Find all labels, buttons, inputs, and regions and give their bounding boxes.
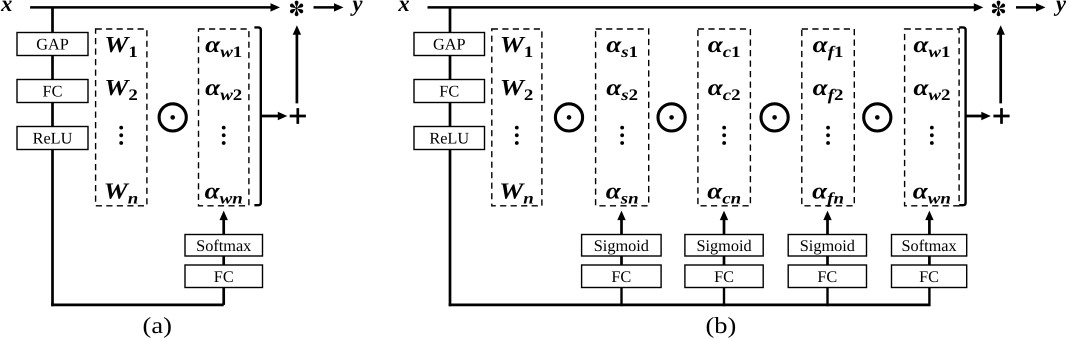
box Softmax (a) (185, 235, 263, 257)
arrow output arrow * to y (a) (314, 3, 344, 11)
box FC (a) (17, 80, 88, 103)
label alpha_c dots (b) (vertical dots) (722, 126, 726, 145)
svg-text:GAP: GAP (36, 35, 69, 54)
svg-text:FC: FC (43, 82, 63, 101)
svg-text:FC: FC (919, 267, 939, 286)
wire FC to ReLU connector (b) (449, 102, 452, 127)
svg-text:x: x (397, 0, 409, 16)
wire GAP to FC connector (b) (449, 55, 452, 80)
svg-text:Sigmoid: Sigmoid (696, 236, 751, 255)
operator odot (a) (elementwise product) (159, 104, 186, 131)
operator plus (b) (plus) (993, 108, 1009, 124)
wire ReLU down leg (b) (449, 149, 452, 306)
box FC (b) (414, 80, 485, 103)
svg-text:Sigmoid: Sigmoid (800, 236, 855, 255)
arrow sigmoid to alpha_f (b) (823, 211, 831, 235)
wire bottom feed line (b) (449, 304, 930, 307)
box FC alpha_c (b) (685, 265, 763, 288)
bracket sum bracket (b) (959, 27, 965, 205)
dashed vector box attention alpha_w (a) (199, 29, 249, 206)
svg-text:Softmax: Softmax (196, 236, 251, 255)
dashed vector box weights W (b) (492, 29, 542, 206)
wire FC down stub alpha_f (b) (826, 287, 828, 306)
box ReLU (a) (17, 127, 88, 150)
wire ReLU down leg (a) (51, 149, 54, 306)
svg-text:(a): (a) (143, 313, 172, 338)
operator odot 1 (b) (elementwise product) (555, 104, 582, 131)
arrow sigmoid to alpha_s (b) (617, 211, 625, 235)
bracket sum bracket (a) (254, 27, 260, 205)
box FC alpha_f (b) (788, 265, 866, 288)
wire branch drop from main path (a) (51, 7, 54, 33)
arrow softmax to alpha_w (b) (925, 211, 933, 235)
wire softmax-FC connector (a) (222, 256, 225, 266)
arrow sigmoid to alpha_c (b) (720, 211, 728, 235)
svg-text:FC: FC (611, 267, 631, 286)
wire bottom feed line (a) (51, 304, 224, 307)
svg-text:(b): (b) (705, 313, 736, 338)
operator U2 * (b) (convolution asterisk) (991, 1, 1006, 17)
wire sigmoid-FC connector alpha_c (b) (723, 256, 726, 266)
box GAP (a) (17, 33, 88, 56)
operator odot 2 (b) (elementwise product) (658, 104, 685, 131)
arrow bracket to plus (b) (966, 112, 991, 120)
operator odot 4 (b) (elementwise product) (864, 104, 891, 131)
svg-text:FC: FC (817, 267, 837, 286)
dashed vector box alpha_f (b) (802, 29, 855, 206)
svg-text:ReLU: ReLU (429, 129, 469, 148)
svg-text:x: x (0, 0, 12, 16)
label alpha_f dots (b) (vertical dots) (826, 126, 830, 145)
svg-text:ReLU: ReLU (33, 129, 73, 148)
arrow plus to star (b) (997, 25, 1005, 103)
arrow main path x to * (a) (30, 3, 280, 11)
svg-text:y: y (1053, 0, 1067, 16)
arrow softmax to alpha_w (a) (220, 211, 228, 235)
box FC alpha_s (b) (582, 265, 662, 288)
wire branch drop from main path (b) (449, 7, 452, 33)
box FC bottom (a) (185, 265, 263, 288)
operator plus (a) (plus) (290, 108, 306, 124)
arrow plus to star (a) (293, 25, 301, 103)
box FC alpha_w (b) (892, 265, 967, 288)
svg-text:Softmax: Softmax (902, 236, 957, 255)
wire FC down stub alpha_w (b) (928, 287, 930, 306)
label W dots (a) (vertical dots) (119, 126, 123, 145)
arrow main path x to * (b) (428, 3, 984, 11)
dashed vector box weights W (a) (96, 29, 147, 206)
svg-text:FC: FC (714, 267, 734, 286)
svg-text:FC: FC (439, 82, 459, 101)
box Softmax alpha_w (b) (892, 235, 967, 257)
wire sigmoid-FC connector alpha_s (b) (620, 256, 623, 266)
wire sigmoid-FC connector alpha_f (b) (826, 256, 829, 266)
label W dots (b) (vertical dots) (515, 126, 519, 145)
wire GAP to FC connector (a) (51, 55, 54, 80)
dashed vector box alpha_s (b) (596, 29, 649, 206)
box GAP (b) (414, 33, 485, 56)
svg-text:FC: FC (214, 267, 234, 286)
label alpha_s dots (b) (vertical dots) (620, 126, 624, 145)
arrow bracket to plus (a) (262, 112, 288, 120)
wire softmax-FC connector alpha_w (b) (928, 256, 931, 266)
wire FC down stub alpha_c (b) (723, 287, 725, 306)
wire bottom riser to FC (a) (222, 287, 225, 305)
svg-text:Sigmoid: Sigmoid (594, 236, 649, 255)
box ReLU (b) (414, 127, 485, 150)
wire FC to ReLU connector (a) (51, 102, 54, 127)
label alpha_w dots (a) (vertical dots) (222, 126, 226, 145)
operator odot 3 (b) (elementwise product) (761, 104, 788, 131)
operator U1 * (a) (convolution asterisk) (289, 1, 304, 17)
box Sigmoid alpha_s (b) (582, 235, 662, 257)
svg-text:GAP: GAP (433, 35, 466, 54)
arrow output arrow * to y (b) (1016, 3, 1046, 11)
label alpha_w dots (b) (vertical dots) (930, 126, 934, 145)
dashed vector box alpha_w (b) (905, 29, 960, 206)
svg-text:y: y (350, 0, 364, 16)
box Sigmoid alpha_f (b) (788, 235, 866, 257)
wire FC down stub alpha_s (b) (620, 287, 622, 306)
box Sigmoid alpha_c (b) (685, 235, 763, 257)
dashed vector box alpha_c (b) (698, 29, 751, 206)
